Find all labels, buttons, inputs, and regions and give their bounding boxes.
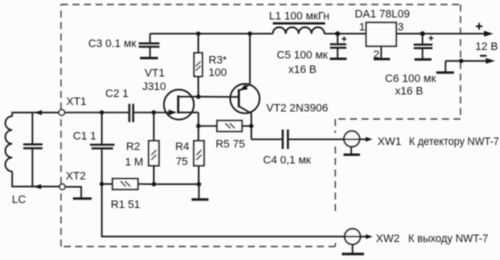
svg-text:R5 75: R5 75 xyxy=(216,138,245,150)
svg-text:L1 100 мкГн: L1 100 мкГн xyxy=(269,10,330,22)
svg-text:12 В: 12 В xyxy=(475,41,498,53)
svg-text:75: 75 xyxy=(176,156,188,168)
svg-text:С3 0.1 мк: С3 0.1 мк xyxy=(88,38,136,50)
svg-text:100: 100 xyxy=(209,67,227,79)
svg-text:1: 1 xyxy=(359,21,365,33)
svg-text:2: 2 xyxy=(373,49,379,61)
svg-text:C4 0,1 мк: C4 0,1 мк xyxy=(263,154,311,166)
svg-text:LC: LC xyxy=(12,194,26,206)
svg-text:3: 3 xyxy=(398,21,404,33)
svg-text:К выходу NWT-7: К выходу NWT-7 xyxy=(408,233,488,245)
svg-text:XW1: XW1 xyxy=(378,136,402,148)
svg-text:С6 100 мк: С6 100 мк xyxy=(385,73,436,85)
svg-text:J310: J310 xyxy=(142,81,166,93)
svg-text:R2: R2 xyxy=(126,141,140,153)
svg-text:R3*: R3* xyxy=(209,54,228,66)
svg-text:х16 В: х16 В xyxy=(395,85,423,97)
svg-text:XT2: XT2 xyxy=(66,170,86,182)
svg-text:XW2: XW2 xyxy=(376,233,400,245)
svg-text:С5 100 мк: С5 100 мк xyxy=(277,50,328,62)
svg-text:XT1: XT1 xyxy=(66,96,86,108)
svg-text:C2 1: C2 1 xyxy=(105,88,128,100)
svg-text:К детектору NWT-7: К детектору NWT-7 xyxy=(409,136,499,148)
svg-text:R1 51: R1 51 xyxy=(111,199,140,211)
svg-text:C1 1: C1 1 xyxy=(73,130,96,142)
svg-text:R4: R4 xyxy=(175,141,189,153)
svg-text:VT1: VT1 xyxy=(145,67,165,79)
svg-text:1 М: 1 М xyxy=(125,157,143,169)
svg-text:х16 В: х16 В xyxy=(288,64,316,76)
svg-text:DA1 78L09: DA1 78L09 xyxy=(355,9,410,21)
svg-text:VT2 2N3906: VT2 2N3906 xyxy=(266,102,328,114)
